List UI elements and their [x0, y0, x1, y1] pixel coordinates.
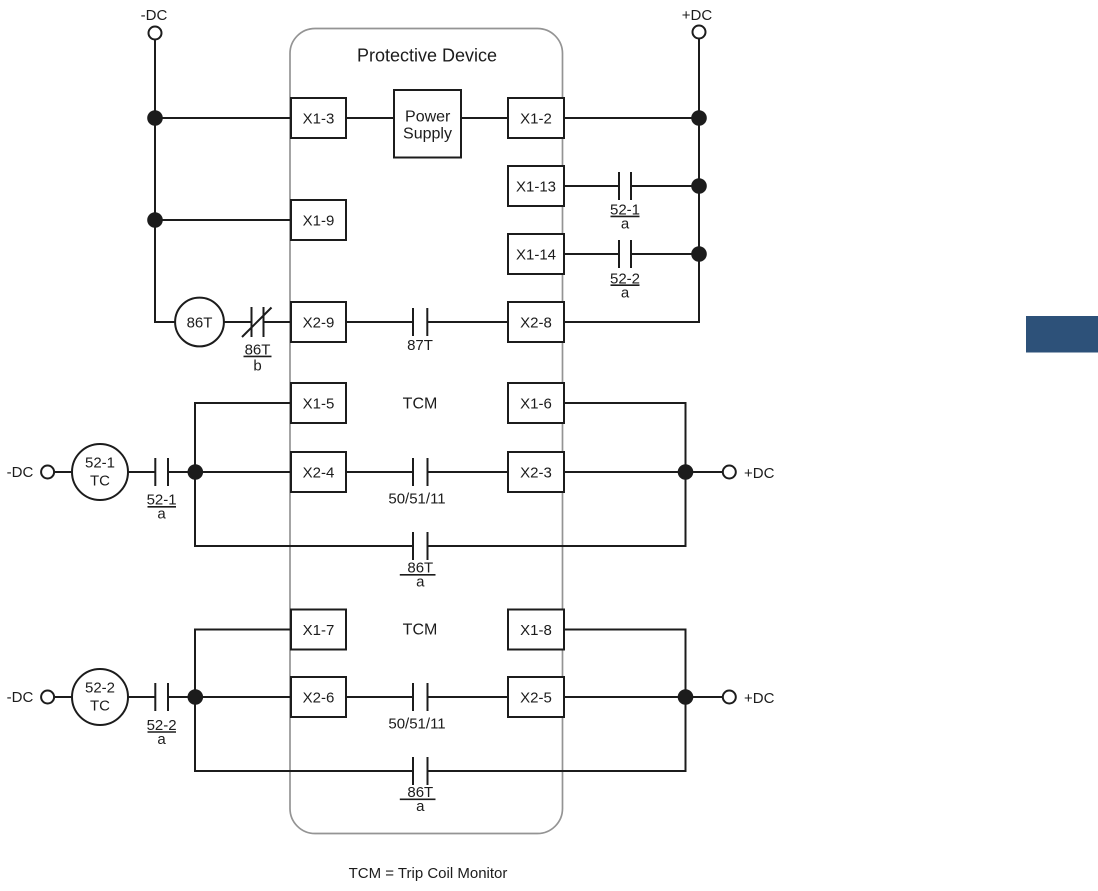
terminal X2-3 — [508, 452, 564, 492]
junction TCM2 left — [188, 689, 204, 705]
terminal X1-5 — [291, 383, 346, 423]
protective device enclosure — [290, 29, 563, 834]
wire coil to contact 52-1a (TCM1) — [128, 471, 155, 473]
wire X1-3 to power supply — [346, 117, 394, 119]
svg-text:-DC: -DC — [7, 464, 34, 481]
svg-text:50/51/11: 50/51/11 — [388, 716, 445, 733]
terminal X1-7 — [291, 610, 346, 650]
label 52-1/a (TCM1) — [147, 492, 177, 523]
wire right +DC bus — [564, 39, 699, 323]
svg-text:X1-5: X1-5 — [303, 396, 335, 413]
svg-text:X2-4: X2-4 — [303, 465, 335, 482]
coil 86T — [175, 298, 224, 347]
wire left bus to X1-9 — [155, 219, 291, 221]
terminal X1-13 — [508, 166, 564, 206]
svg-text:Power: Power — [405, 108, 451, 125]
label TCM (lower) — [403, 622, 438, 639]
svg-text:-DC: -DC — [7, 689, 34, 706]
wire -DC to coil 52-1 TC — [54, 471, 72, 473]
node +DC (TCM1) — [723, 465, 775, 482]
terminal X2-9 — [291, 302, 346, 342]
wire X2-6 to contact 50/51/11 (TCM2) — [346, 696, 413, 698]
svg-text:Protective Device: Protective Device — [357, 46, 497, 66]
wire X2-9 to contact 87T — [346, 321, 413, 323]
label 50/51/11 (TCM1) — [388, 491, 445, 508]
svg-text:52-1: 52-1 — [85, 455, 115, 472]
junction TCM1 left — [188, 464, 204, 480]
svg-text:50/51/11: 50/51/11 — [388, 491, 445, 508]
svg-text:X1-14: X1-14 — [516, 247, 556, 264]
wire contact to X2-4 — [168, 471, 291, 473]
svg-text:a: a — [621, 215, 630, 232]
power supply U1 — [394, 90, 461, 158]
contact 50/51/11 (TCM1) — [413, 458, 428, 486]
label TCM (upper) — [403, 396, 438, 413]
wire X2-3 to +DC (TCM1) — [564, 471, 722, 473]
wire X1-2 to right bus — [564, 117, 699, 119]
svg-text:a: a — [157, 505, 166, 522]
node +DC (top) — [682, 7, 713, 39]
wire X1-6 right loop (TCM1) — [428, 403, 686, 546]
terminal X1-9 — [291, 200, 346, 240]
terminal X1-3 — [291, 98, 346, 138]
wire 86T coil to contact 86Tb — [224, 321, 252, 323]
label 87T — [407, 337, 433, 354]
svg-text:+DC: +DC — [744, 690, 775, 707]
svg-text:a: a — [621, 284, 630, 301]
wire X2-5 to +DC (TCM2) — [564, 696, 722, 698]
svg-text:86T: 86T — [187, 315, 213, 332]
svg-text:TC: TC — [90, 698, 110, 715]
terminal X2-8 — [508, 302, 564, 342]
junction left bus row1 — [147, 110, 163, 126]
label 86T/a (TCM2) — [400, 784, 436, 815]
junction right bus row2 — [691, 178, 707, 194]
contact 52-1 a (row2) — [619, 172, 631, 200]
wire X1-5 left loop (TCM1) — [195, 403, 413, 546]
wire power supply to X1-2 — [462, 117, 508, 119]
terminal X1-14 — [508, 234, 564, 274]
svg-text:TCM = Trip Coil Monitor: TCM = Trip Coil Monitor — [349, 865, 508, 882]
contact 86T a (TCM1 branch) — [413, 532, 428, 560]
wire contact 52-1a to right bus — [631, 185, 699, 187]
wire left -DC bus — [155, 40, 175, 323]
wire contact 87T to X2-8 — [427, 321, 508, 323]
junction TCM2 right — [678, 689, 694, 705]
svg-text:X2-5: X2-5 — [520, 690, 552, 707]
wire -DC to coil 52-2 TC — [54, 696, 72, 698]
note TCM legend — [349, 865, 508, 882]
svg-text:TCM: TCM — [403, 622, 438, 639]
contact 86T b (normally closed) — [242, 307, 272, 337]
wire X1-8 right loop (TCM2) — [428, 630, 686, 772]
svg-text:X2-6: X2-6 — [303, 690, 335, 707]
coil 52-2 TC — [72, 669, 128, 725]
junction right bus row4 — [691, 246, 707, 262]
svg-text:87T: 87T — [407, 337, 433, 354]
svg-text:a: a — [416, 574, 425, 591]
contact 52-1 a (TCM1) — [155, 458, 168, 486]
contact 87T — [413, 308, 427, 336]
label 86T/a (TCM1) — [400, 559, 436, 590]
svg-text:X1-13: X1-13 — [516, 179, 556, 196]
svg-text:52-2: 52-2 — [85, 680, 115, 697]
contact 86T a (TCM2 branch) — [413, 757, 428, 785]
svg-text:Supply: Supply — [403, 126, 452, 143]
svg-text:a: a — [157, 731, 166, 748]
svg-text:+DC: +DC — [744, 465, 775, 482]
wire X2-4 to contact 50/51/11 (TCM1) — [346, 471, 413, 473]
svg-text:b: b — [253, 358, 261, 375]
wire X1-13 to contact 52-1a — [564, 185, 619, 187]
terminal X1-8 — [508, 610, 564, 650]
svg-text:a: a — [416, 798, 425, 815]
svg-text:X2-9: X2-9 — [303, 315, 335, 332]
svg-text:X1-3: X1-3 — [303, 111, 335, 128]
svg-text:TC: TC — [90, 473, 110, 490]
terminal X2-4 — [291, 452, 346, 492]
wire contact to X2-6 — [168, 696, 291, 698]
node -DC (TCM2) — [7, 689, 54, 706]
junction TCM1 right — [678, 464, 694, 480]
wire coil to contact 52-2a (TCM2) — [128, 696, 155, 698]
label 50/51/11 (TCM2) — [388, 716, 445, 733]
svg-text:X2-8: X2-8 — [520, 315, 552, 332]
terminal X1-6 — [508, 383, 564, 423]
wire contact to X2-5 — [428, 696, 509, 698]
svg-text:TCM: TCM — [403, 396, 438, 413]
label 52-2/a (TCM2) — [147, 717, 177, 748]
terminal X2-6 — [291, 677, 346, 717]
wire X1-14 to contact 52-2a — [564, 253, 619, 255]
svg-text:X1-2: X1-2 — [520, 111, 552, 128]
label 52-2/a (row4) — [610, 270, 640, 301]
svg-text:X1-7: X1-7 — [303, 622, 335, 639]
svg-text:X1-9: X1-9 — [303, 213, 335, 230]
wire contact 52-2a to right bus — [631, 253, 699, 255]
junction left bus row3 — [147, 212, 163, 228]
svg-text:+DC: +DC — [682, 7, 713, 24]
wire contact to X2-3 — [428, 471, 509, 473]
node -DC (TCM1) — [7, 464, 54, 481]
svg-text:-DC: -DC — [141, 7, 168, 24]
node +DC (TCM2) — [723, 690, 775, 707]
terminal X2-5 — [508, 677, 564, 717]
label 86T/b — [244, 341, 272, 374]
terminal X1-2 — [508, 98, 564, 138]
svg-text:X2-3: X2-3 — [520, 465, 552, 482]
wire X1-7 left loop (TCM2) — [195, 630, 413, 772]
label 52-1/a (row2) — [610, 202, 640, 233]
title Protective Device — [357, 46, 497, 66]
svg-text:X1-8: X1-8 — [520, 622, 552, 639]
contact 52-2 a (row4) — [619, 240, 631, 268]
wire row1 left bus to X1-3 — [155, 117, 291, 119]
svg-text:X1-6: X1-6 — [520, 396, 552, 413]
coil 52-1 TC — [72, 444, 128, 500]
contact 52-2 a (TCM2) — [155, 683, 168, 711]
contact 50/51/11 (TCM2) — [413, 683, 428, 711]
node -DC (top) — [141, 7, 168, 40]
junction right bus row1 — [691, 110, 707, 126]
blue sidebar marker — [1026, 316, 1098, 353]
wire contact 86Tb to X2-9 — [264, 321, 292, 323]
